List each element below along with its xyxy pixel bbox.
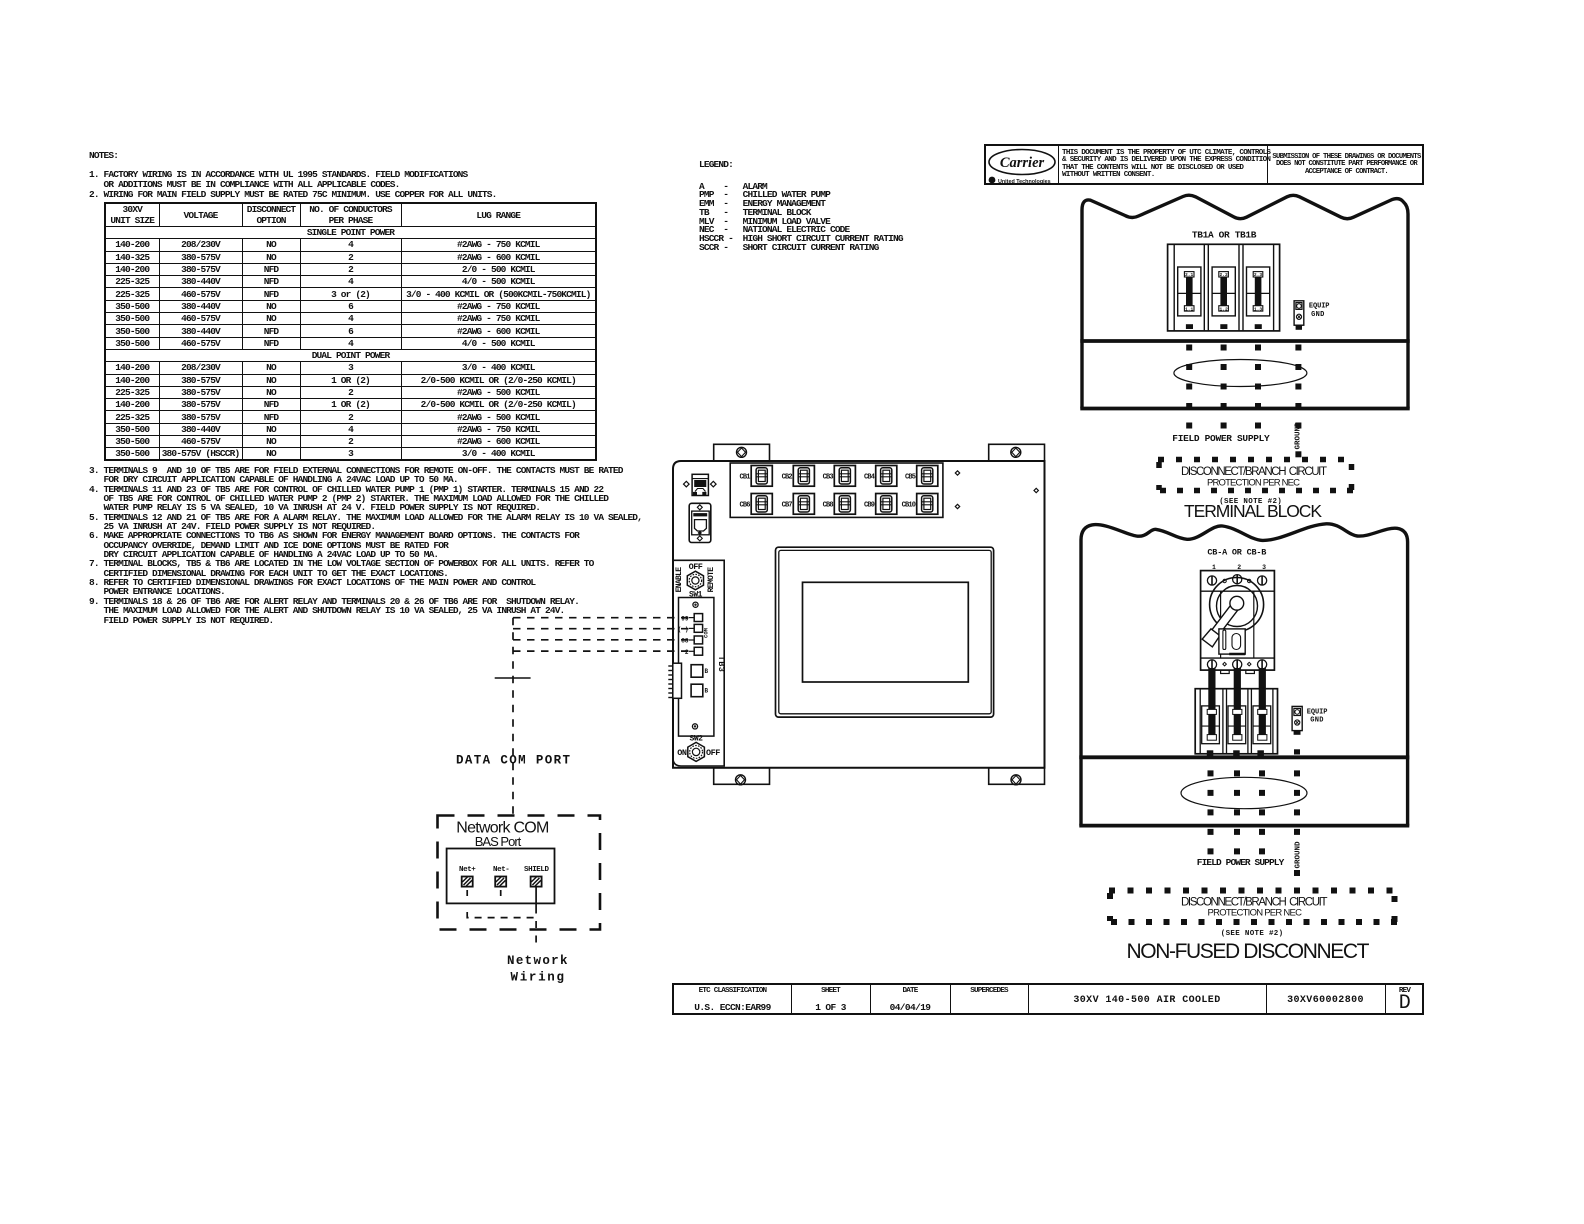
svg-text:CB3: CB3 (823, 473, 834, 481)
rivet 3 (1034, 488, 1038, 492)
TB1 pole 1 (1178, 267, 1201, 329)
Net+ stub (dashed) (466, 890, 468, 901)
title TERMINAL BLOCK (1184, 501, 1322, 521)
TB2 pole 1 (1202, 689, 1220, 757)
breaker CB5 (905, 466, 938, 487)
label FIELD POWER SUPPLY (TB1) (1172, 433, 1270, 444)
dashed protection zone (TB1) (1158, 460, 1354, 493)
breaker CB1 (739, 466, 772, 487)
handle base plate (1219, 629, 1245, 654)
breaker CB8 (823, 494, 856, 515)
rivet 2 (955, 504, 959, 508)
label BAS Port (475, 834, 522, 849)
svg-text:Network: Network (507, 954, 568, 968)
toggle switch S3 (689, 503, 711, 542)
svg-text:GROUND: GROUND (1295, 422, 1303, 450)
svg-text:ENABLE: ENABLE (675, 567, 684, 593)
equipment ground lug GND1 (1294, 301, 1304, 330)
label GROUND (CB) (1295, 841, 1303, 869)
svg-text:SW2: SW2 (690, 735, 704, 744)
label EQUIP GND (CB) (1307, 709, 1328, 725)
rivet 1 (955, 471, 959, 475)
TB3 terminal B2 (691, 684, 708, 697)
svg-text:88: 88 (681, 638, 689, 645)
Net- stub (dashed) (500, 890, 502, 901)
breaker CB6 (739, 494, 772, 515)
svg-text:99: 99 (681, 615, 689, 622)
wire L1 (solid) (1208, 668, 1215, 740)
label DATA COM PORT (456, 754, 570, 768)
svg-text:DISCONNECT/BRANCH CIRCUIT: DISCONNECT/BRANCH CIRCUIT (1181, 897, 1328, 909)
breaker CB4 (864, 466, 897, 487)
TB3 label COM (703, 627, 710, 638)
svg-text:B: B (705, 688, 709, 695)
title NON-FUSED DISCONNECT (1127, 940, 1370, 963)
label Network COM (456, 820, 549, 837)
TB3 terminal B1 (691, 665, 708, 678)
breaker CB3 (823, 466, 856, 487)
svg-text:2.1: 2.1 (1185, 272, 1194, 278)
breaker CB7 (782, 494, 815, 515)
terminal block TB1 assembly (1168, 244, 1280, 331)
pole labels 1 2 3 (1212, 564, 1266, 571)
svg-text:B: B (705, 668, 709, 675)
TB3 designator (716, 656, 726, 673)
selector switch SW2 (688, 742, 705, 761)
svg-text:FIELD POWER SUPPLY: FIELD POWER SUPPLY (1172, 433, 1270, 444)
TB1 pole 3 (1247, 267, 1270, 329)
SW2 label OFF (706, 748, 720, 758)
field wire L1 dashed (CB) (1208, 770, 1214, 856)
label PROTECTION PER NEC (TB1) (1207, 477, 1300, 488)
ground wire (dashed) (1295, 345, 1301, 458)
network COM dashed boundary (438, 816, 601, 930)
svg-text:CB9: CB9 (864, 501, 875, 509)
svg-text:OFF: OFF (706, 748, 720, 758)
terminal Net+ (459, 866, 476, 887)
svg-text:OFF: OFF (689, 562, 703, 572)
BAS port box (447, 849, 555, 904)
svg-text:CB7: CB7 (782, 501, 793, 509)
svg-text:GND: GND (1310, 717, 1324, 725)
svg-text:1.3: 1.3 (1254, 306, 1263, 312)
svg-text:(SEE NOTE #2): (SEE NOTE #2) (1221, 930, 1283, 938)
label FIELD POWER SUPPLY (CB) (1197, 857, 1285, 868)
svg-text:PROTECTION PER NEC: PROTECTION PER NEC (1207, 477, 1300, 488)
label SEE NOTE 2 (CB) (1221, 930, 1283, 938)
svg-text:1: 1 (1212, 564, 1216, 571)
breaker panel box (730, 463, 943, 517)
svg-text:TB3: TB3 (716, 656, 726, 673)
svg-text:SHIELD: SHIELD (524, 866, 550, 874)
control panel enclosure (673, 461, 1045, 768)
low voltage sub-panel (673, 560, 724, 766)
label GROUND (TB1) (1295, 422, 1303, 450)
TB3 terminal 2 (678, 624, 703, 633)
svg-text:REMOTE: REMOTE (707, 567, 716, 593)
wire L3 (solid) (1259, 668, 1266, 740)
svg-text:ON: ON (677, 748, 687, 758)
label SEE NOTE 2 (TB1) (1219, 498, 1282, 506)
svg-text:CB1: CB1 (739, 473, 750, 481)
card edge connector P1 (668, 663, 681, 698)
svg-text:2: 2 (1237, 564, 1241, 571)
display U1 bezel (776, 547, 994, 717)
terminal block TB2 assembly (1195, 689, 1277, 754)
com wire 3 (dashed) (513, 639, 694, 641)
svg-text:NON-FUSED DISCONNECT: NON-FUSED DISCONNECT (1127, 940, 1370, 963)
port boundary tick (495, 677, 531, 679)
rotary handle (1202, 578, 1263, 647)
com wire 1 (dashed) (513, 617, 694, 619)
SW1 label ENABLE (675, 567, 684, 593)
svg-text:Net+: Net+ (459, 866, 476, 874)
twisted pair return (dashed) (467, 912, 536, 918)
svg-text:TERMINAL BLOCK: TERMINAL BLOCK (1184, 501, 1322, 521)
wire L2 (solid) (1234, 668, 1241, 740)
svg-text:3: 3 (1262, 564, 1266, 571)
display U1 screen (803, 582, 969, 682)
conduit ellipse (CB) (1181, 777, 1307, 808)
svg-text:Net-: Net- (493, 866, 509, 874)
svg-text:BAS Port: BAS Port (475, 834, 522, 849)
enclosure (torn-edge box) (1080, 195, 1409, 408)
svg-text:1.1: 1.1 (1185, 306, 1194, 312)
com wire 2 (dashed) (513, 628, 694, 630)
label TB1A OR TB1B (1192, 230, 1257, 241)
svg-text:EQUIP: EQUIP (1309, 303, 1330, 311)
mounting tab top-right (989, 444, 1045, 461)
disconnect switch CB-A body (1201, 571, 1275, 671)
field wire L3 dashed (CB) (1259, 770, 1265, 856)
ethernet jack J1 (692, 474, 708, 495)
rivet left of J1 (684, 481, 690, 487)
terminal SHIELD (524, 866, 550, 887)
SW1 label OFF (689, 562, 703, 572)
mounting tab top-left (714, 444, 770, 461)
label DISCONNECT/BRANCH CIRCUIT (CB) (1181, 897, 1328, 909)
ground wire dashed (CB) (1294, 749, 1300, 876)
svg-text:CB4: CB4 (864, 473, 875, 481)
enclosure (torn-edge box) (1079, 524, 1409, 826)
mounting tab bottom-left (714, 768, 770, 785)
svg-text:TB1A OR TB1B: TB1A OR TB1B (1192, 230, 1257, 241)
dashed protection zone (CB) (1109, 891, 1398, 925)
com wire 4 (dashed) (513, 650, 694, 652)
SW1 designator (689, 591, 703, 600)
TB2 pole 2 (1228, 689, 1246, 757)
breaker CB9 (864, 494, 897, 515)
svg-text:2.2: 2.2 (1219, 272, 1228, 278)
top terminal screws (1207, 575, 1266, 586)
TB2 pole 3 (1253, 689, 1271, 757)
svg-text:CB10: CB10 (902, 501, 916, 509)
label DISCONNECT/BRANCH CIRCUIT (TB1) (1181, 466, 1327, 478)
svg-text:DATA COM PORT: DATA COM PORT (456, 754, 570, 768)
svg-text:CB8: CB8 (823, 501, 834, 509)
TB3 bottom screw (692, 724, 697, 729)
svg-text:Wiring: Wiring (511, 971, 565, 985)
TB1 pole 2 (1212, 267, 1235, 329)
label Network Wiring (507, 954, 568, 985)
svg-text:CB-A OR CB-B: CB-A OR CB-B (1207, 548, 1266, 558)
TB3 top screw (693, 602, 698, 607)
label CB-A OR CB-B (1207, 548, 1266, 558)
SW1 label REMOTE (707, 567, 716, 593)
label EQUIP GND (TB1) (1309, 303, 1330, 320)
equipment ground lug GND2 (1292, 706, 1302, 734)
selector switch SW1 (687, 571, 703, 590)
svg-text:GND: GND (1311, 311, 1325, 319)
field wire L2 dashed (CB) (1234, 770, 1240, 856)
breaker CB2 (782, 466, 815, 487)
field wire L2 (dashed) (1221, 345, 1227, 431)
shield drain wire (535, 887, 537, 950)
mounting tab bottom-right (989, 768, 1045, 785)
rivet right of J1 (711, 481, 717, 487)
SW2 designator (690, 735, 704, 744)
svg-text:EQUIP: EQUIP (1307, 709, 1328, 717)
svg-text:2: 2 (685, 649, 689, 656)
breaker CB10 (902, 494, 938, 515)
field wire L3 (dashed) (1255, 345, 1261, 431)
TB3 terminal 4 (685, 647, 703, 656)
bottom terminal screws (1207, 660, 1266, 674)
com riser (dashed) (512, 618, 514, 815)
TB3 terminal 1 (681, 614, 702, 623)
field wire L1 (dashed) (1186, 345, 1192, 431)
svg-text:CB2: CB2 (782, 473, 793, 481)
svg-text:(-): (-) (678, 626, 689, 633)
terminal block TB3 outline (679, 598, 714, 737)
svg-text:CB6: CB6 (739, 501, 750, 509)
conduit ellipse (1174, 360, 1307, 387)
SW2 label ON (677, 748, 687, 758)
label PROTECTION PER NEC (CB) (1208, 908, 1303, 919)
svg-text:GROUND: GROUND (1295, 841, 1303, 869)
TB3 terminal 3 (681, 636, 702, 645)
terminal Net- (493, 866, 509, 887)
svg-text:PROTECTION PER NEC: PROTECTION PER NEC (1208, 908, 1303, 919)
svg-text:2.3: 2.3 (1254, 272, 1263, 278)
svg-text:COM: COM (703, 627, 710, 638)
svg-text:1.2: 1.2 (1219, 306, 1228, 312)
svg-text:FIELD POWER SUPPLY: FIELD POWER SUPPLY (1197, 857, 1285, 868)
svg-text:CB5: CB5 (905, 473, 916, 481)
